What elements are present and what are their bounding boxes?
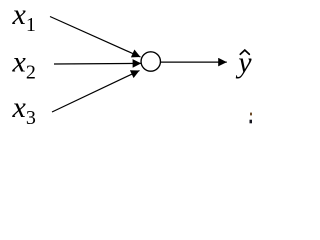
wire input arrow from x3 (52, 71, 140, 113)
stray mark upper (clipped glyph at right edge) (250, 113, 252, 116)
svg-text:x3: x3 (12, 91, 36, 129)
wire input arrow from x2 (54, 62, 141, 65)
wire output arrow to y-hat (161, 61, 227, 63)
stray mark lower (clipped glyph at right edge) (250, 120, 253, 124)
hat accent of y-hat (240, 50, 249, 54)
svg-text:x2: x2 (12, 46, 36, 84)
wire input arrow from x1 (50, 17, 141, 58)
node unit circle (141, 52, 160, 71)
svg-text:x1: x1 (12, 0, 36, 36)
